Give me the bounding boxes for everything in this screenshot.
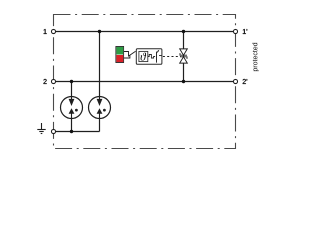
wire line 2 (terminal 2 to terminal 2') bbox=[54, 81, 236, 83]
thermal disconnect device U1 bbox=[136, 49, 162, 65]
wire TVS branch (line 1 to line 2) bbox=[183, 32, 185, 82]
status indicator (green/red) bbox=[116, 47, 124, 63]
terminal 2 bbox=[51, 79, 55, 83]
terminal 1 bbox=[51, 29, 55, 33]
ground bbox=[37, 123, 45, 134]
node line1/TVS junction bbox=[182, 30, 185, 33]
gas discharge tube F2 bbox=[89, 97, 111, 119]
wire GDT1 branch (line 2 to ground rail) bbox=[71, 82, 73, 132]
label terminal 1' bbox=[243, 29, 247, 34]
terminal ground bbox=[51, 129, 55, 133]
wire line 1 (terminal 1 to terminal 1') bbox=[54, 31, 236, 33]
label terminal 2' bbox=[243, 79, 248, 84]
dashed linkage to TVS bbox=[163, 56, 181, 58]
terminal 2' bbox=[233, 79, 237, 83]
enclosure dash-dot border bbox=[54, 15, 236, 149]
terminal 1' bbox=[233, 29, 237, 33]
wire ground rail bbox=[54, 131, 100, 133]
node line1/GDT2 junction bbox=[98, 30, 101, 33]
indicator mechanical linkage bbox=[124, 51, 136, 58]
TVS suppressor diode (bidirectional) bbox=[180, 49, 188, 63]
node line2/TVS junction bbox=[182, 80, 185, 83]
node ground rail/GDT1 junction bbox=[70, 130, 73, 133]
label protected bbox=[252, 43, 259, 71]
gas discharge tube F1 bbox=[61, 97, 83, 119]
label terminal 2 bbox=[43, 79, 46, 84]
wire GDT2 branch (line 1 crossing line 2 to ground rail) bbox=[99, 32, 101, 132]
node line2/GDT1 junction bbox=[70, 80, 73, 83]
label terminal 1 bbox=[44, 29, 47, 34]
